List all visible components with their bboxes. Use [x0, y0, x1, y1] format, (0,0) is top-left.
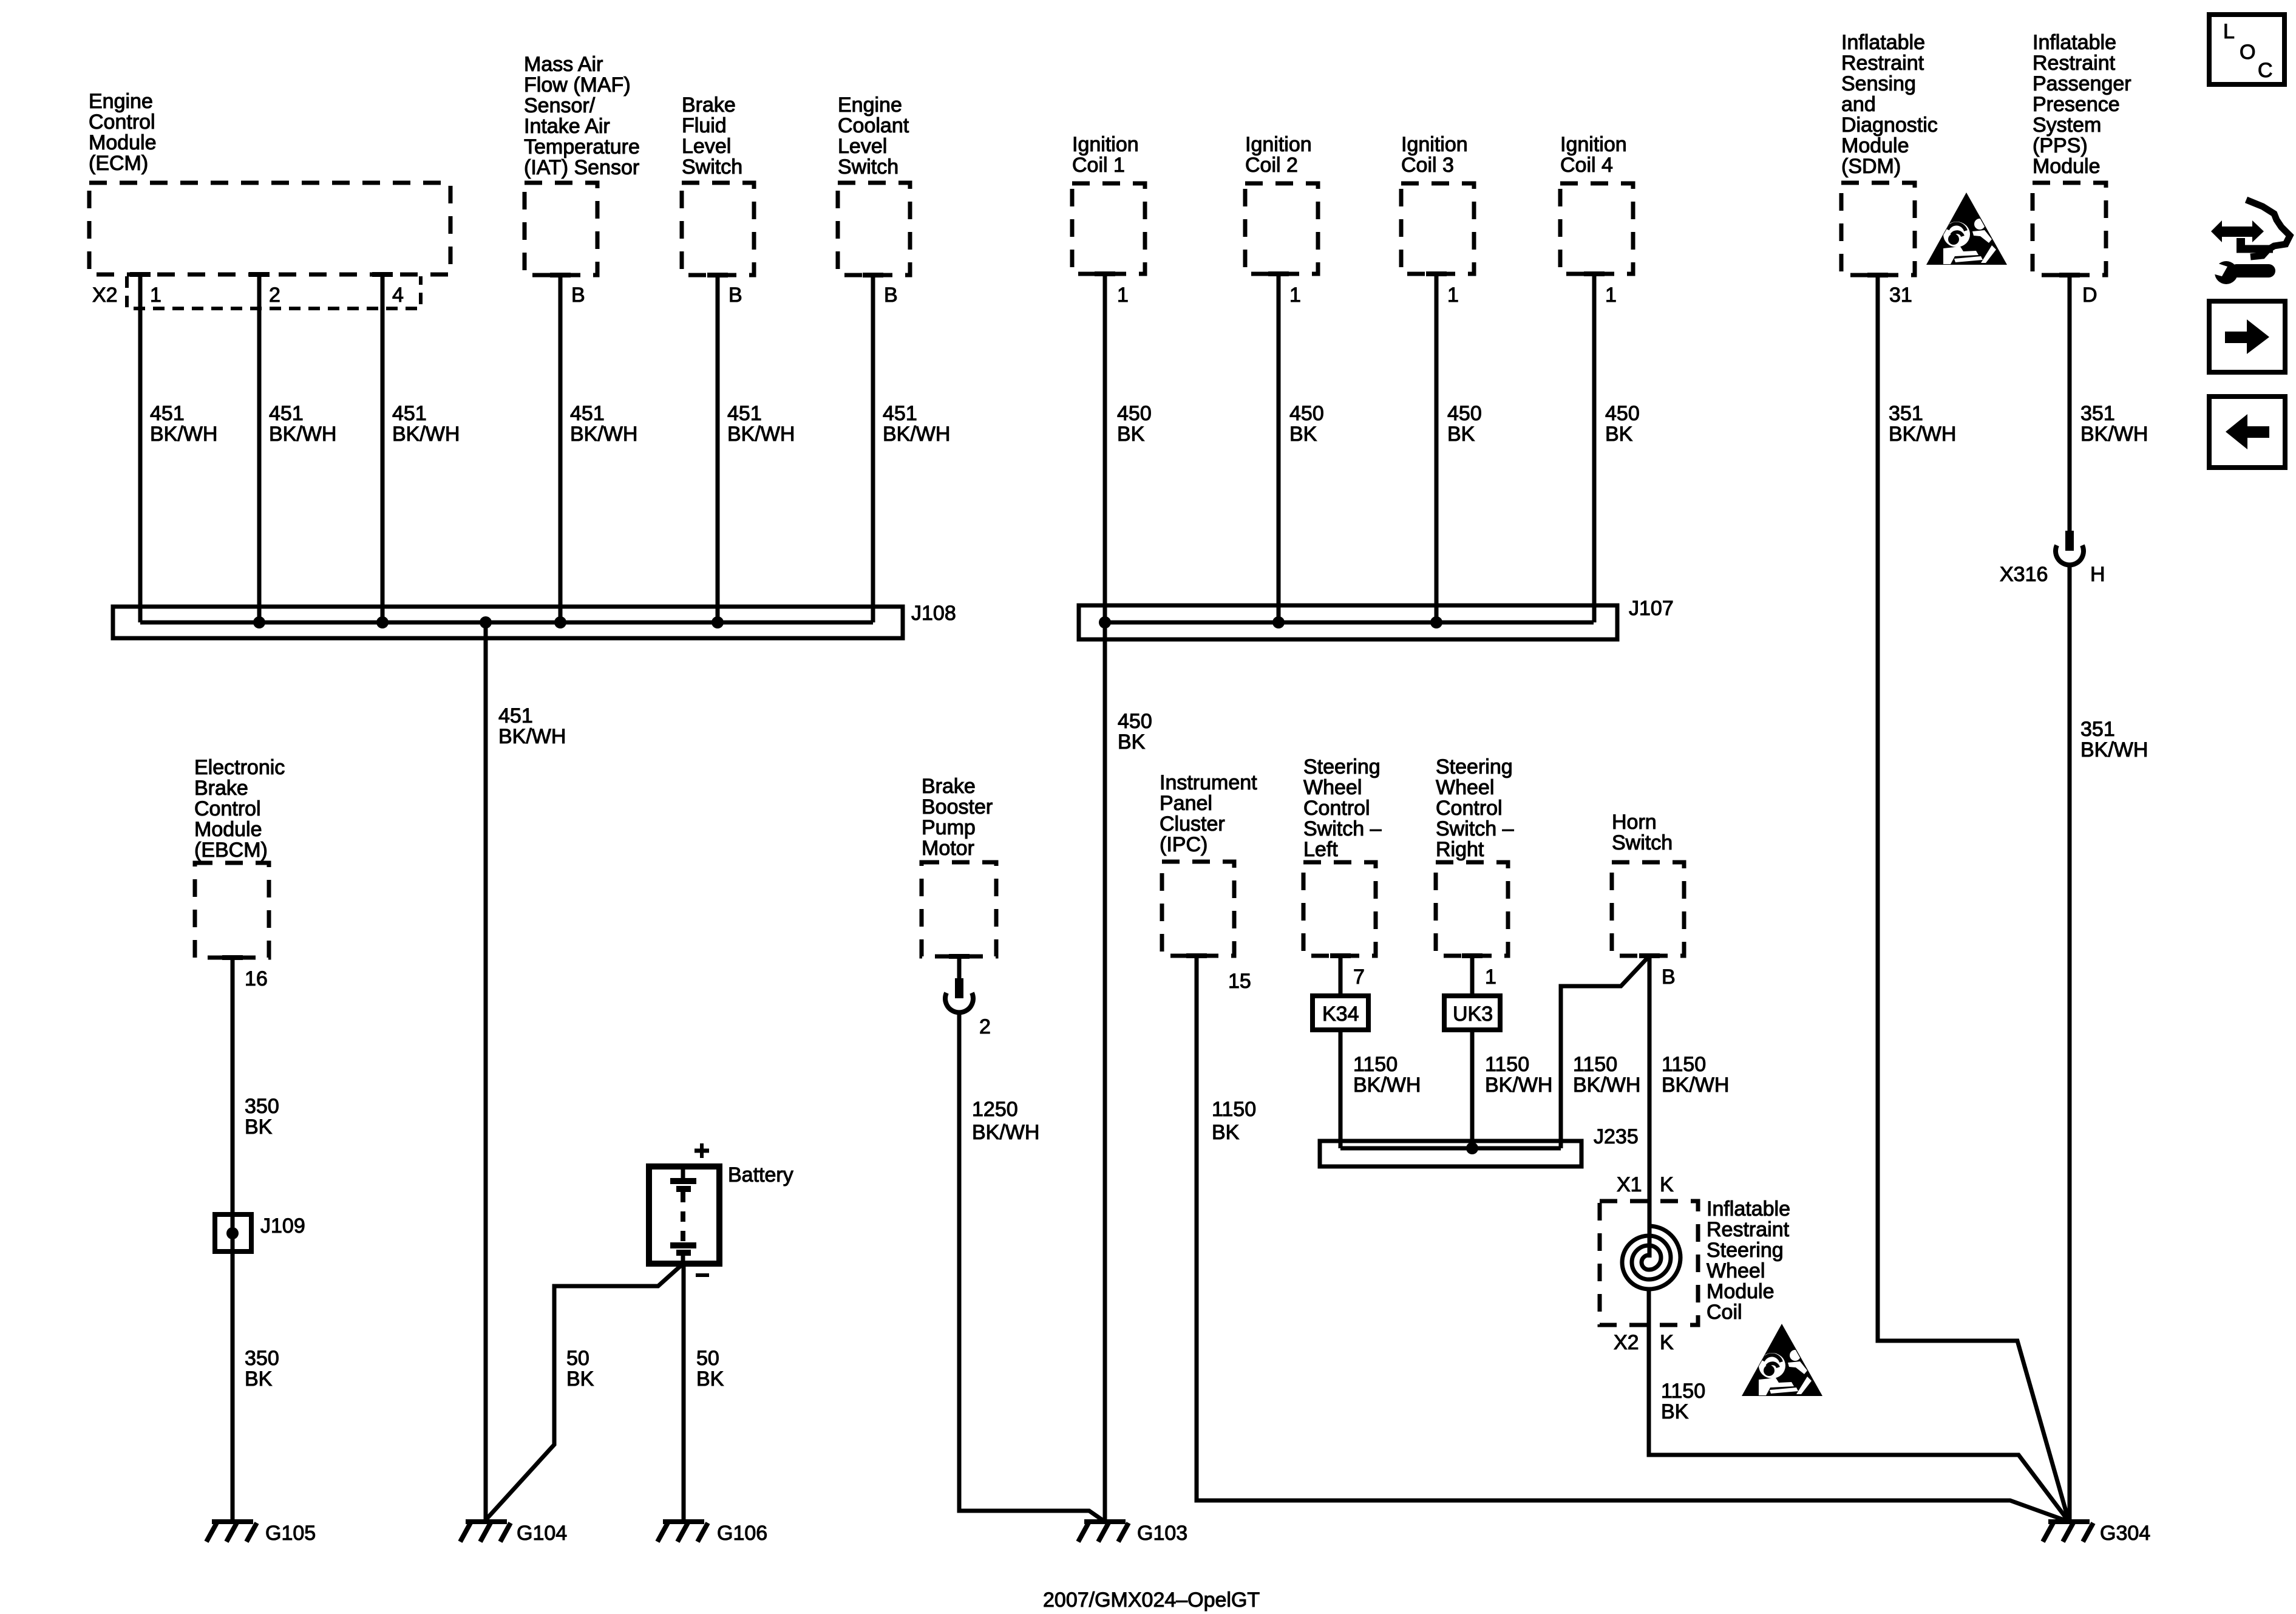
wire 351 BK/WH from X316 to G304: [2068, 564, 2072, 1522]
svg-text:B: B: [729, 284, 742, 307]
SDM pin 31 tick: [1867, 273, 1888, 278]
ECM pin 2 tick: [249, 272, 270, 277]
svg-text:G105: G105: [265, 1522, 316, 1545]
connector X2 strip on ECM: [127, 276, 421, 308]
Ignition Coil 3 dashed box: [1401, 183, 1474, 274]
svg-text:J109: J109: [260, 1214, 305, 1238]
wire 1150 BK coil to G304: [1649, 1289, 2069, 1522]
SWCS Left dashed box: [1303, 862, 1376, 956]
svg-text:K: K: [1660, 1173, 1674, 1196]
module ECM dashed box: [89, 183, 450, 274]
clockspring coil spiral: [1622, 1226, 1680, 1289]
wire 1150 BK/WH UK3 to J235: [1470, 1030, 1475, 1148]
wire 50 BK battery negative to G104: [486, 1265, 682, 1519]
svg-text:2007/GMX024–OpelGT: 2007/GMX024–OpelGT: [1043, 1588, 1260, 1612]
Ignition Coil 3 pin 1 tick: [1426, 271, 1447, 276]
svg-text:X316: X316: [2000, 563, 2048, 586]
tool/repair icon: double arrow, part outline, wrench: [2209, 200, 2290, 284]
wire 450 BK at x=2626: [1592, 274, 1597, 622]
in-line splice J109: [215, 1214, 251, 1251]
BFLS pin B tick: [707, 273, 728, 278]
wire 450 BK from J107 to G103: [1103, 622, 1107, 1522]
wire 1150 BK/WH K34 to J235: [1339, 1030, 1343, 1148]
connector K34: [1313, 996, 1368, 1030]
wire 1150 BK from IPC to G304: [1197, 956, 2069, 1522]
ECM pin 1 tick: [130, 272, 151, 277]
svg-text:L: L: [2223, 20, 2235, 43]
LOC reference box: [2209, 15, 2284, 84]
splice pack J108: [113, 607, 903, 638]
junction at x=923 on J108: [554, 616, 566, 628]
svg-text:H: H: [2090, 563, 2105, 586]
Brake Booster Pump Motor dashed box: [922, 862, 996, 956]
Ignition Coil 1 dashed box: [1072, 183, 1145, 274]
svg-text:1: 1: [150, 284, 161, 307]
svg-text:1: 1: [1447, 284, 1459, 307]
wire 450 BK at x=2366: [1435, 274, 1439, 622]
svg-text:X1: X1: [1617, 1173, 1642, 1196]
wire 1150 BK/WH horn to steering wheel coil: [1648, 956, 1652, 1258]
left-arrow navigation box: [2209, 397, 2285, 468]
EBCM dashed box: [195, 863, 269, 958]
in-line connector X316: [2056, 531, 2084, 565]
svg-text:J235: J235: [1594, 1125, 1639, 1148]
svg-text:J108: J108: [911, 602, 956, 625]
junction at x=800 on J108: [480, 616, 492, 628]
svg-text:2: 2: [269, 284, 280, 307]
horn pin B tick: [1639, 953, 1660, 958]
svg-text:1: 1: [1605, 284, 1617, 307]
wire 1150 BK/WH horn to J235: [1561, 956, 1649, 1148]
junction at x=630 on J108: [376, 616, 389, 628]
MAF pin B tick: [550, 273, 571, 278]
Brake Fluid Level Switch dashed box: [682, 183, 754, 275]
wire 451 BK/WH at x=1438: [871, 274, 875, 622]
wire 50 BK battery negative to G106: [682, 1264, 686, 1522]
J235 internal bus wire: [1340, 1146, 1561, 1151]
PPS pin D tick: [2059, 273, 2080, 278]
junction at x=427 on J108: [253, 616, 265, 628]
Ignition Coil 4 pin 1 tick: [1584, 271, 1605, 276]
pump pin stub: [957, 956, 962, 978]
svg-text:15: 15: [1228, 970, 1251, 993]
splice pack J235: [1320, 1141, 1581, 1166]
svg-text:Battery: Battery: [728, 1163, 793, 1187]
svg-text:B: B: [1662, 965, 1676, 989]
battery minus sign: [696, 1273, 709, 1277]
svg-text:B: B: [884, 284, 898, 307]
pump pin 2 tick: [949, 954, 970, 959]
svg-text:4: 4: [392, 284, 404, 307]
svg-text:EngineCoolantLevelSwitch: EngineCoolantLevelSwitch: [838, 94, 909, 179]
ground G105: [206, 1522, 257, 1542]
IPC dashed box: [1162, 862, 1234, 956]
wire 451 BK/WH from J108 to G104: [484, 622, 488, 1522]
svg-text:B: B: [571, 284, 585, 307]
wire 451 BK/WH at x=427: [257, 274, 262, 622]
wire SWCS-R pin to UK3: [1470, 956, 1475, 996]
wire 351 BK/WH from PPS to X316: [2068, 275, 2072, 531]
wire 451 BK/WH at x=923: [559, 274, 563, 622]
battery B+ box: [649, 1166, 719, 1264]
Ignition Coil 1 pin 1 tick: [1095, 271, 1115, 276]
connector UK3: [1444, 996, 1500, 1030]
battery cell symbol: [670, 1170, 696, 1264]
svg-text:7: 7: [1353, 965, 1365, 989]
svg-text:J107: J107: [1629, 597, 1674, 620]
right-arrow navigation box: [2209, 301, 2285, 372]
ground G104: [460, 1522, 511, 1542]
svg-text:16: 16: [245, 967, 268, 990]
SWCS-L pin 7 tick: [1330, 953, 1351, 958]
MAF sensor dashed box: [525, 183, 597, 275]
Horn Switch dashed box: [1612, 862, 1684, 956]
svg-text:X2: X2: [92, 284, 118, 307]
Engine Coolant Level Switch dashed box: [838, 183, 910, 275]
Ignition Coil 2 dashed box: [1245, 183, 1318, 274]
wire 450 BK at x=1822: [1103, 274, 1107, 622]
junction on J235: [1466, 1142, 1478, 1154]
SWCS Right dashed box: [1436, 862, 1508, 956]
SRS warning symbol near steering wheel coil: [1742, 1324, 1822, 1396]
Ignition Coil 2 pin 1 tick: [1268, 271, 1289, 276]
junction at x=1182 on J108: [712, 616, 724, 628]
svg-text:G104: G104: [517, 1522, 567, 1545]
svg-text:G106: G106: [717, 1522, 767, 1545]
wire 1250 BK/WH pump to G103: [959, 1011, 1105, 1522]
svg-text:EngineControlModule(ECM): EngineControlModule(ECM): [89, 90, 157, 175]
junction at x=2366 on J107: [1430, 616, 1442, 628]
IPC pin 15 tick: [1186, 953, 1207, 958]
svg-text:K34: K34: [1322, 1003, 1359, 1026]
splice pack J107: [1079, 605, 1617, 639]
Ignition Coil 4 dashed box: [1560, 183, 1633, 274]
svg-text:1: 1: [1289, 284, 1301, 307]
battery plus sign: [695, 1143, 709, 1158]
svg-text:G103: G103: [1137, 1522, 1187, 1545]
wire 451 BK/WH at x=231: [138, 274, 143, 622]
junction at x=1818 on J107: [1099, 616, 1111, 628]
svg-text:G304: G304: [2100, 1522, 2150, 1545]
wire 351 BK/WH from SDM to G304: [1878, 275, 2069, 1522]
svg-text:31: 31: [1889, 284, 1912, 307]
J107 internal bus wire: [1105, 621, 1594, 625]
SWCS-R pin 1 tick: [1462, 953, 1483, 958]
ECM pin 4 tick: [372, 272, 393, 277]
ground G304: [2043, 1522, 2093, 1542]
EBCM pin 16 tick: [222, 955, 243, 960]
Inflatable Restraint Steering Wheel Module Coil dashed box: [1600, 1201, 1698, 1325]
svg-text:C: C: [2258, 59, 2273, 82]
PPS dashed box: [2033, 183, 2106, 275]
svg-text:2: 2: [979, 1015, 991, 1038]
svg-text:O: O: [2240, 41, 2255, 64]
wire SWCS-L pin to K34: [1339, 956, 1343, 996]
junction dot in J109: [226, 1227, 239, 1239]
svg-text:K: K: [1660, 1331, 1674, 1354]
svg-text:X2: X2: [1614, 1331, 1639, 1354]
SDM dashed box: [1841, 183, 1915, 275]
wire 451 BK/WH at x=1182: [716, 274, 720, 622]
J108 internal bus wire: [140, 621, 873, 625]
svg-text:1: 1: [1485, 965, 1496, 989]
svg-text:UK3: UK3: [1453, 1003, 1493, 1026]
wire 350 BK from EBCM to G105: [231, 958, 235, 1522]
ECLS pin B tick: [863, 273, 883, 278]
ground G103: [1078, 1522, 1129, 1542]
svg-text:D: D: [2082, 284, 2097, 307]
ground G106: [657, 1522, 708, 1542]
svg-text:1: 1: [1117, 284, 1129, 307]
wire 451 BK/WH at x=630: [381, 274, 385, 622]
junction at x=2106 on J107: [1272, 616, 1285, 628]
wire 450 BK at x=2106: [1277, 274, 1281, 622]
in-line connector at pump pin 2: [945, 978, 973, 1012]
